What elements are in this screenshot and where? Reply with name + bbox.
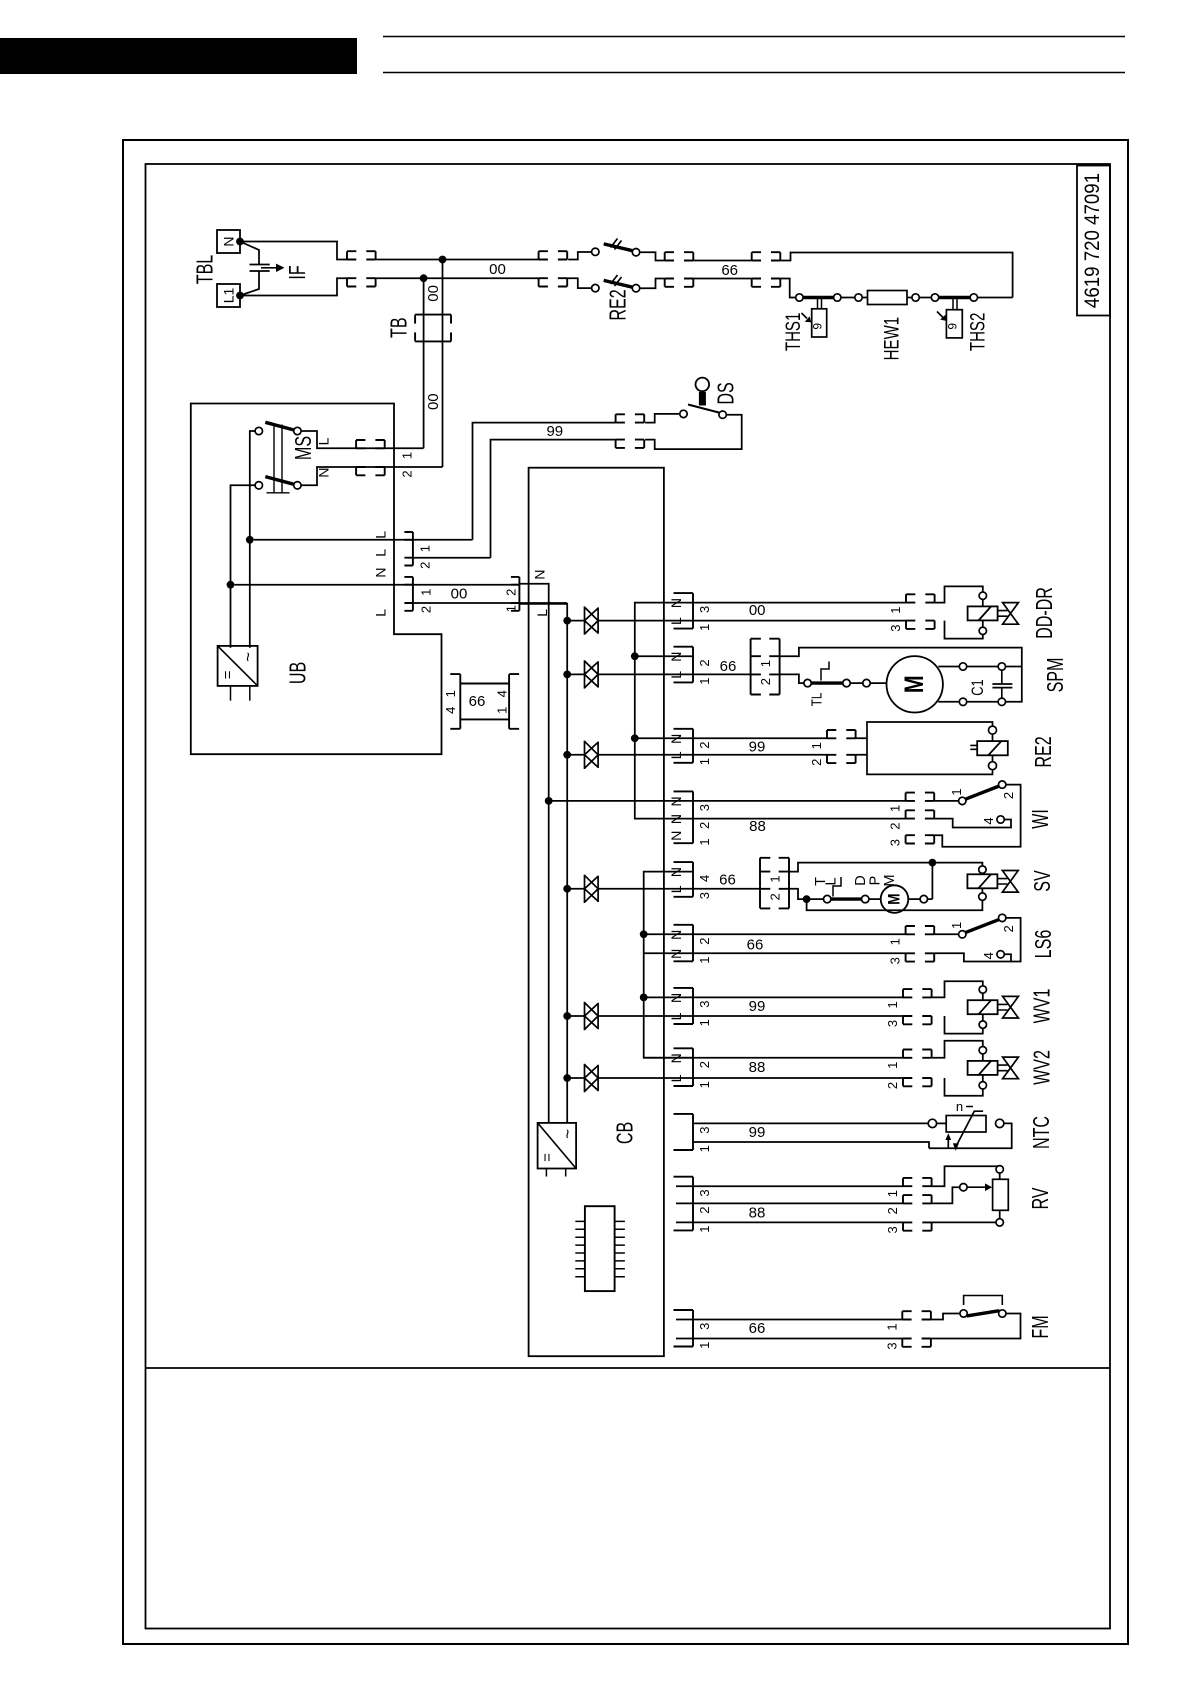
node L-bus T6: [563, 1074, 571, 1082]
wire RV pot top: [999, 1173, 1001, 1180]
svg-text:3: 3: [697, 892, 712, 899]
potentiometer RV body: [993, 1179, 1009, 1210]
wire heater chain in: [780, 279, 796, 298]
svg-text:N: N: [668, 598, 684, 608]
node TBL-L1: [236, 292, 244, 300]
contact RE2 upper bar: [604, 244, 633, 251]
valve WV1: [1003, 996, 1019, 1018]
svg-text:M: M: [885, 893, 904, 904]
svg-text:RV: RV: [1028, 1187, 1053, 1210]
svg-text:2: 2: [697, 741, 712, 748]
wire MS left upper: [250, 431, 256, 648]
motor SPM: [887, 656, 943, 712]
wire triac5 out: [598, 1015, 903, 1017]
svg-text:L: L: [668, 1012, 684, 1020]
wire heater thick 2: [938, 296, 970, 299]
thermostat THS2 box: [946, 310, 962, 338]
node TBL-N: [236, 238, 244, 246]
svg-text:N: N: [668, 796, 684, 806]
valve link DD-DR: [998, 611, 1008, 617]
wire DD-DR loop top: [935, 586, 983, 602]
wire CB L entry: [519, 604, 567, 1123]
connector CB-edge WI: [674, 791, 694, 843]
wire N RE2: [635, 737, 827, 739]
wire WV1 t1: [982, 993, 984, 1000]
wire L feed: [254, 539, 473, 541]
wire DS in: [645, 414, 680, 423]
terminal SV valve top: [979, 866, 986, 873]
contact RE2 lower bar: [604, 280, 633, 287]
wire FM in: [931, 1314, 960, 1320]
wire SPM top loop: [780, 648, 1022, 667]
node mains top: [439, 256, 447, 264]
node UB N: [227, 581, 235, 589]
wire IF top: [240, 242, 347, 260]
svg-text:2: 2: [809, 759, 824, 766]
wire triac3 out: [598, 754, 827, 756]
terminal SV TL b: [862, 895, 869, 902]
svg-text:3: 3: [885, 1020, 900, 1027]
node SV TL: [803, 895, 811, 903]
svg-text:IF: IF: [285, 265, 310, 279]
svg-text:THS1: THS1: [780, 313, 804, 351]
terminal SPM TL c: [863, 679, 870, 686]
svg-text:M: M: [900, 675, 930, 693]
terminal heater 1: [796, 294, 803, 301]
svg-text:SV: SV: [1030, 870, 1055, 892]
capacitor IF-C plates: [250, 265, 270, 272]
node mains bottom: [420, 274, 428, 282]
svg-text:L: L: [373, 609, 389, 617]
node N-dist WV1: [640, 994, 648, 1002]
wire RE2 in top: [568, 252, 592, 260]
svg-text:2: 2: [1001, 792, 1016, 799]
terminal TBL-L1 box: [217, 284, 240, 307]
svg-text:2: 2: [400, 470, 415, 477]
connector MS output: [356, 440, 385, 475]
svg-text:1: 1: [885, 1001, 900, 1008]
svg-text:3: 3: [697, 1127, 712, 1134]
switch FM bar: [967, 1311, 1000, 1316]
contact RE2 upper right: [632, 249, 639, 256]
wire NTC a-body: [937, 1122, 947, 1124]
heater HEW1 body: [868, 291, 908, 305]
wire HEW1-4: [907, 297, 912, 299]
terminal RV top: [996, 1166, 1003, 1173]
wire SV motor in: [869, 898, 881, 900]
wire MS left lower: [231, 485, 256, 648]
wire SPM c1c-d: [966, 701, 998, 703]
svg-text:~: ~: [239, 652, 258, 662]
wire SPM motor in: [870, 682, 887, 684]
connector CB-edge DD-DR: [674, 593, 694, 629]
svg-text:L: L: [316, 437, 332, 445]
thermal cutout SV TL bar: [831, 897, 862, 900]
node N-dist RE2: [631, 734, 639, 742]
thermal cutout SPM TL mark: [821, 662, 829, 681]
svg-text:1: 1: [888, 938, 903, 945]
svg-text:4: 4: [443, 707, 458, 714]
wire FM row2: [676, 1338, 902, 1340]
terminal WV1 bottom: [979, 1021, 986, 1028]
svg-text:99: 99: [546, 423, 563, 440]
thermostat THS2 tap: [953, 298, 957, 310]
wire DD-DR t2: [982, 620, 984, 627]
wire MS out L: [301, 431, 424, 448]
svg-text:66: 66: [469, 693, 486, 710]
wire SV top: [789, 863, 982, 872]
node L-bus T2: [563, 671, 571, 679]
wire TB left: [423, 278, 425, 448]
wire triac2 in: [567, 673, 584, 675]
svg-text:1: 1: [885, 1190, 900, 1197]
wire WI pin4 feed: [934, 819, 1011, 828]
terminal NTC a: [928, 1119, 936, 1127]
wire SPM top right: [1005, 666, 1022, 668]
wire triac3 in: [567, 754, 584, 756]
svg-text:SPM: SPM: [1043, 658, 1068, 693]
svg-text:1: 1: [697, 624, 712, 631]
wire LS6 switched: [644, 952, 906, 954]
wire N SPM: [635, 655, 693, 657]
svg-text:WI: WI: [1028, 809, 1053, 829]
wire N-dist lower: [644, 872, 693, 1058]
triac T5: [585, 1002, 599, 1030]
contact FM a: [960, 1310, 967, 1317]
svg-text:1: 1: [884, 1323, 899, 1330]
svg-text:L: L: [373, 549, 389, 557]
thermal cutout SPM TL bar: [811, 681, 843, 684]
svg-text:3: 3: [697, 1001, 712, 1008]
svg-text:=: =: [539, 1153, 556, 1162]
node L-bus T5: [563, 1012, 571, 1020]
svg-text:00: 00: [425, 393, 442, 410]
switch MS upper right: [294, 427, 301, 434]
wire triac5 in: [567, 1015, 584, 1017]
terminal DD-DR top: [979, 592, 986, 599]
wire heater loop top: [780, 253, 1012, 298]
svg-text:2: 2: [885, 1082, 900, 1089]
triac T6: [585, 1064, 599, 1092]
svg-text:N: N: [668, 652, 684, 662]
wire FM loop: [931, 1314, 1021, 1339]
triac T3: [585, 741, 599, 769]
frame divider: [146, 1367, 1111, 1369]
chassis arrow IF: [261, 267, 276, 269]
node L-bus T1: [563, 617, 571, 625]
wire SV join: [927, 863, 932, 900]
node L-bus T3: [563, 751, 571, 759]
svg-text:9: 9: [810, 323, 824, 330]
connector RV load: [903, 1178, 932, 1231]
wire WV2 t1: [982, 1054, 984, 1061]
svg-text:n: n: [956, 1099, 963, 1114]
terminal RV wiper: [960, 1184, 967, 1191]
connector CB-edge RV: [674, 1177, 694, 1231]
connector mains-RE2: [539, 251, 568, 286]
terminal WV2 top: [979, 1047, 986, 1054]
svg-text:HEW1: HEW1: [879, 317, 903, 360]
connector WV1 load: [903, 989, 932, 1024]
svg-text:N: N: [668, 1053, 684, 1063]
svg-text:4: 4: [981, 817, 996, 824]
wire LS6 pin4 stub: [1004, 954, 1011, 961]
wire WV1 loop bottom: [945, 1016, 983, 1034]
valve link WV2: [998, 1065, 1008, 1071]
svg-text:DS: DS: [714, 382, 739, 404]
connector CB-edge NTC: [674, 1114, 694, 1150]
svg-text:N: N: [668, 831, 684, 841]
thermostat THS1 box: [812, 309, 827, 337]
svg-text:3: 3: [888, 624, 903, 631]
svg-text:TL: TL: [808, 693, 825, 707]
svg-text:2: 2: [697, 1061, 712, 1068]
connector RE2row load: [827, 730, 856, 763]
wire SV coil bottom: [981, 888, 983, 893]
svg-text:TB: TB: [387, 317, 412, 338]
svg-text:88: 88: [749, 1059, 766, 1076]
wire WV2 loop bottom: [945, 1078, 983, 1096]
terminal DD-DR bottom: [979, 627, 986, 634]
node L-bus T4: [563, 885, 571, 893]
power supply CB stubs: [546, 1169, 565, 1177]
svg-text:4619 720 47091: 4619 720 47091: [1081, 173, 1104, 308]
valve WV2: [1003, 1057, 1019, 1079]
thermistor NTC arrow: [947, 1138, 949, 1149]
wire WV2 t2: [982, 1075, 984, 1082]
contact LS6 b: [999, 914, 1006, 921]
wire RE2 in bottom: [567, 278, 592, 288]
contact WI a: [959, 797, 966, 804]
terminal heater 2: [834, 294, 841, 301]
svg-text:N: N: [373, 568, 389, 578]
connector DD-DR load: [906, 594, 935, 629]
wire RV pot bottom: [999, 1210, 1001, 1219]
svg-text:00: 00: [451, 585, 468, 602]
terminal heater 4: [912, 294, 919, 301]
contact RE2 upper left: [592, 248, 599, 255]
wire WI right: [934, 785, 1020, 847]
svg-text:3: 3: [697, 1323, 712, 1330]
terminal SPM TL b: [843, 679, 850, 686]
valve link SV: [997, 879, 1007, 884]
switch MS upper left: [255, 427, 262, 434]
wire triac4 in: [567, 888, 584, 890]
switch MS lower left: [255, 482, 262, 489]
switch LS6 bar: [965, 919, 999, 932]
svg-text:1: 1: [697, 838, 712, 845]
node N-dist SPM: [631, 652, 639, 660]
wire SPM bottom right: [1005, 667, 1022, 702]
svg-text:66: 66: [747, 937, 764, 954]
wire RE2 coil top: [992, 734, 994, 742]
svg-text:1: 1: [419, 589, 434, 596]
svg-text:M: M: [882, 874, 898, 886]
wire NL second: [413, 602, 567, 604]
svg-text:00: 00: [489, 261, 506, 278]
terminal heater 5: [931, 294, 938, 301]
terminal TBL-N box: [217, 230, 240, 253]
wire RV row2: [676, 1202, 903, 1204]
svg-text:2: 2: [888, 822, 903, 829]
header rule top: [383, 36, 1125, 38]
relay coil DD-DR: [968, 606, 998, 620]
wire heater 2-3: [841, 297, 855, 299]
svg-text:1: 1: [697, 758, 712, 765]
connector LL left: [404, 532, 413, 566]
wire 99 upper: [473, 423, 616, 540]
wire MS out N: [301, 467, 443, 485]
thermostat THS1 tap: [818, 298, 822, 309]
svg-text:L: L: [668, 885, 684, 893]
svg-text:1: 1: [503, 605, 518, 612]
connector CB-edge RE2row: [674, 729, 694, 763]
svg-text:1: 1: [697, 956, 712, 963]
connector WI load: [906, 793, 935, 844]
triac T1: [585, 606, 599, 634]
power supply UB: [218, 646, 258, 686]
wire triac6 out: [598, 1077, 903, 1079]
motor SV DPM: [881, 885, 909, 913]
svg-text:FM: FM: [1028, 1315, 1053, 1338]
svg-text:1: 1: [758, 660, 773, 667]
terminal SPM c1a: [959, 663, 966, 670]
contact LS6 4: [997, 951, 1004, 958]
terminal WV1 top: [979, 986, 986, 993]
svg-text:1: 1: [949, 788, 964, 795]
connector TB: [415, 315, 451, 342]
thermistor NTC body: [946, 1116, 986, 1133]
wire triac1 out: [598, 620, 906, 622]
svg-text:1: 1: [697, 1145, 712, 1152]
power supply UB stubs: [231, 686, 250, 701]
svg-text:4: 4: [697, 875, 712, 882]
connector LS6 load: [906, 926, 935, 962]
wire heater link top: [693, 260, 751, 262]
thermostat THS2 arrow: [937, 312, 943, 318]
svg-text:L: L: [373, 531, 389, 539]
svg-text:L: L: [824, 877, 840, 885]
contact DS right: [719, 411, 726, 418]
wire SPM c1a-b: [966, 666, 998, 668]
wire heater 3-HEW1: [862, 297, 868, 299]
contact DS lever: [688, 405, 719, 413]
part number box: [1077, 166, 1110, 316]
terminal heater 6: [970, 294, 977, 301]
wire heater thick 1: [803, 296, 834, 299]
relay coil WV2: [968, 1061, 998, 1075]
svg-text:2: 2: [1001, 925, 1016, 932]
svg-text:99: 99: [749, 739, 766, 756]
connector SPM inline: [751, 639, 780, 695]
wire RV top: [932, 1166, 1000, 1186]
wire FM row1: [676, 1319, 902, 1321]
terminal SPM TL a: [804, 679, 811, 686]
svg-text:TBL: TBL: [193, 255, 218, 285]
wire RV row1: [676, 1185, 903, 1187]
svg-text:MS: MS: [291, 436, 316, 460]
svg-text:1: 1: [697, 1081, 712, 1088]
node SV top: [929, 859, 937, 867]
thermal cutout SV TL mark: [833, 877, 841, 897]
wire N WV2: [644, 1057, 903, 1059]
svg-text:66: 66: [719, 872, 736, 889]
svg-text:2: 2: [758, 678, 773, 685]
wire WV2 loop top: [932, 1041, 983, 1058]
terminal heater 3: [855, 294, 862, 301]
wire NTC loop: [693, 1123, 1012, 1148]
wire RV wiper in: [932, 1187, 960, 1203]
svg-text:RE2: RE2: [606, 289, 631, 320]
node N-bus WI: [545, 797, 553, 805]
svg-text:2: 2: [697, 1207, 712, 1214]
contact FM b: [999, 1310, 1006, 1317]
svg-text:3: 3: [885, 1226, 900, 1233]
svg-text:N: N: [668, 949, 684, 959]
connector WV2 load: [903, 1050, 932, 1087]
svg-text:2: 2: [885, 1207, 900, 1214]
relay coil RE2 stub: [970, 745, 977, 749]
wire 99 lower: [491, 440, 616, 558]
svg-text:N: N: [668, 930, 684, 940]
contact RE2 upper marks: [611, 239, 622, 250]
svg-text:1: 1: [443, 690, 458, 697]
terminal RE2 bottom: [989, 762, 997, 770]
relay coil SV: [967, 874, 997, 888]
svg-text:L: L: [668, 1074, 684, 1082]
svg-text:C1: C1: [970, 679, 988, 695]
svg-text:88: 88: [749, 1205, 766, 1222]
connector CB-edge SPM: [674, 647, 694, 683]
wire N feed: [234, 584, 519, 586]
wire triac4 out: [598, 888, 760, 890]
wire N-dist upper: [635, 603, 906, 819]
switch MS lower bar: [265, 477, 294, 485]
wire WI sw in: [934, 800, 959, 802]
triac T2: [585, 660, 599, 688]
svg-text:66: 66: [720, 658, 737, 675]
svg-text:N: N: [668, 814, 684, 824]
node UB L: [246, 536, 254, 544]
terminal SV motor: [920, 895, 927, 902]
terminal SPM c1c: [959, 698, 966, 705]
svg-text:N: N: [316, 467, 332, 477]
relay coil WV1: [968, 1000, 998, 1014]
capacitor C1: [1001, 670, 1003, 698]
contact WI b: [999, 781, 1006, 788]
svg-text:1: 1: [885, 1062, 900, 1069]
wire DD-DR t1: [982, 599, 984, 606]
svg-text:1: 1: [697, 1342, 712, 1349]
svg-text:1: 1: [400, 452, 415, 459]
svg-text:3: 3: [697, 606, 712, 613]
svg-text:2: 2: [417, 562, 432, 569]
svg-text:1: 1: [949, 922, 964, 929]
contact DS left: [680, 410, 687, 417]
svg-text:9: 9: [946, 323, 960, 330]
wire SPM mtop: [938, 666, 959, 668]
wire RE2row in: [856, 738, 867, 755]
thermistor NTC diagonal: [956, 1111, 983, 1147]
connector CB-edge FM: [674, 1310, 694, 1347]
connector heater B: [752, 252, 781, 287]
connector NL right: [511, 577, 520, 611]
wire heater 4-5: [919, 297, 932, 299]
wire SV TL in: [789, 889, 803, 899]
svg-text:N: N: [668, 867, 684, 877]
valve link WV1: [998, 1004, 1008, 1010]
terminal SPM c1b: [998, 663, 1005, 670]
